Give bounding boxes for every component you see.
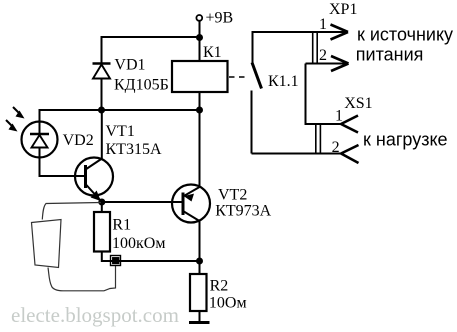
svg-text:1: 1 (319, 16, 327, 33)
photodiode VD2 (22, 122, 58, 177)
wire VT2 emitter up to relay (199, 110, 201, 187)
svg-text:КТ315А: КТ315А (106, 141, 162, 158)
diode VD1 (93, 64, 111, 79)
connector body XS1 (316, 123, 321, 155)
wire to VD2 top (39, 109, 41, 134)
svg-text:XP1: XP1 (329, 1, 357, 18)
wire terminal to junction (199, 21, 201, 38)
wire top horizontal (101, 36, 200, 38)
pin arrow XP1-1 (331, 25, 349, 40)
svg-text:К1.1: К1.1 (268, 73, 299, 90)
light arrow 2 (6, 120, 18, 132)
wire R1 bottom to R2 junction (102, 260, 200, 262)
wire down to VD1 (101, 36, 103, 64)
svg-text:к нагрузке: к нагрузке (363, 129, 448, 149)
terminal +9V (196, 15, 202, 21)
transistor VT2 (172, 185, 210, 223)
node emitter junction (98, 199, 105, 206)
annotation line bottom loop (48, 266, 116, 291)
contact K1.1 (252, 31, 262, 154)
svg-text:VD2: VD2 (63, 132, 94, 149)
wire VT2 collector down (199, 221, 201, 261)
svg-text:XS1: XS1 (344, 95, 372, 112)
node junction R2 top (196, 258, 203, 265)
svg-text:КТ973А: КТ973А (215, 202, 271, 219)
wire XS1 pin2 (252, 153, 342, 155)
svg-text:100кОм: 100кОм (112, 235, 165, 252)
wire XP1 pin1 (252, 31, 348, 33)
pin arrow XP1-2 (331, 56, 349, 71)
svg-text:+9В: +9В (206, 10, 234, 27)
svg-text:1: 1 (335, 108, 343, 125)
annotation square marker (111, 256, 121, 266)
light arrow 1 (13, 107, 25, 119)
node junction relay bottom (196, 107, 203, 114)
wire VT1 collector up (101, 110, 103, 159)
wire XS1 pin1 (305, 123, 342, 125)
wire pin2 down to XS1 pin1 (305, 64, 307, 125)
annotation line to node (42, 203, 101, 220)
relay K1 (172, 38, 228, 111)
wire VD2 to VT1 base (39, 175, 86, 177)
svg-text:КД105Б: КД105Б (114, 76, 169, 93)
wire horizontal mid (40, 109, 200, 111)
svg-text:к источнику: к источнику (357, 25, 453, 45)
socket fork XS1-2 (341, 145, 359, 163)
wire VD1 to junction (101, 79, 103, 111)
connector body XP1 (313, 31, 318, 65)
svg-text:питания: питания (356, 45, 424, 65)
resistor R2 (190, 261, 207, 323)
svg-text:VT1: VT1 (106, 123, 135, 140)
svg-text:R1: R1 (112, 216, 131, 233)
svg-text:electe.blogspot.com: electe.blogspot.com (11, 303, 179, 327)
annotation photoresistor blob (32, 220, 62, 268)
resistor R1 (94, 202, 110, 262)
svg-text:VT2: VT2 (218, 187, 247, 204)
svg-text:VD1: VD1 (114, 56, 145, 73)
node junction top (196, 34, 203, 41)
ground (189, 321, 210, 324)
node junction VD1 bottom (98, 107, 105, 114)
svg-text:2: 2 (319, 47, 327, 64)
transistor VT1 (75, 158, 113, 203)
svg-text:К1: К1 (203, 44, 222, 61)
socket fork XS1-1 (341, 116, 358, 133)
wire base VT2 (102, 201, 183, 203)
dashed link to contact (229, 76, 246, 78)
svg-text:2: 2 (332, 139, 340, 156)
svg-text:10Ом: 10Ом (209, 294, 247, 311)
wire XP1 pin2 (306, 63, 349, 65)
svg-text:R2: R2 (210, 277, 229, 294)
